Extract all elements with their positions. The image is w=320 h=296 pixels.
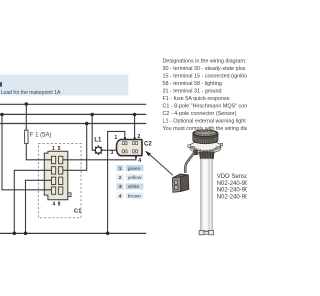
svg-text:L1 - Optional external warning: L1 - Optional external warning light [163,119,247,125]
C2 terminal 4 [133,150,138,153]
connector C1 right tab [68,193,71,197]
svg-text:1: 1 [52,146,55,152]
C1 pin 1 [52,156,56,163]
svg-text:2: 2 [137,134,140,140]
junction node pin3 wire on ground bus [24,232,28,236]
sensor flange tabs [188,145,191,148]
svg-text:2: 2 [119,175,122,181]
wire C1 pin 6 to bus 58 [63,124,87,171]
arrow sensor plug to C2 [145,151,173,176]
svg-text:white: white [128,184,140,190]
svg-text:1: 1 [119,166,122,172]
sensor knurled collar [199,152,214,159]
svg-text:N02-240-902: N02-240-902 [217,181,247,187]
wire C2 pin 1 to ground bus [108,131,125,233]
sensor flange plate [190,141,221,153]
wire C1 pin 5 to C2 pin 4 [63,156,136,160]
svg-text:1: 1 [114,135,117,141]
C2 terminal 3 [122,150,127,153]
C1 pin 4 [52,187,56,194]
legend table wire colors [116,165,143,199]
junction node fuse on bus 30 [25,102,29,106]
sensor foot [199,231,213,235]
bus 30 top supply line [0,103,146,105]
svg-text:3: 3 [110,150,113,156]
designations text block [163,58,254,132]
svg-text:4: 4 [138,158,141,164]
C1 pin 3 [52,177,56,184]
wire bus 15 to lamp L1 [92,115,93,151]
sensor plug connector [172,174,189,192]
svg-text:green: green [128,166,141,172]
ground bus 31 [0,232,146,234]
svg-text:15 - terminal 15 - connected (: 15 - terminal 15 - connected (ignition [163,74,248,80]
junction node C1 pin4 on bus 15 [0,113,4,117]
junction node C2 pin2 on bus 15 [133,113,137,117]
svg-text:C1: C1 [74,208,82,214]
svg-text:4: 4 [119,193,122,199]
fuse F1 [25,130,28,143]
svg-text:3: 3 [119,184,122,190]
C2 terminal 1 [122,142,127,145]
svg-text:58 - terminal 58 - lighting: 58 - terminal 58 - lighting [163,81,222,87]
svg-text:brown: brown [128,193,142,199]
sensor tube [201,159,212,231]
connector C1 body [44,151,68,200]
svg-text:C2 - 4-pole connector (Sensor): C2 - 4-pole connector (Sensor) [163,111,237,117]
C2 terminal slots [124,143,136,153]
info banner [0,75,128,96]
bus 15 second supply line [0,113,146,115]
junction node lamp on bus 15 [90,113,94,117]
wire C2 pin 2 to bus 15 [134,115,136,140]
wire C1 pin 4 to bus 15 [2,115,52,190]
svg-text:5: 5 [58,146,61,152]
wire fuse feed from bus 30 [25,104,27,130]
junction node pin2 wire on ground bus [13,232,17,236]
svg-text:4: 4 [52,202,55,208]
svg-text:yellow: yellow [128,175,142,181]
C2 pin 2 stub [134,137,136,140]
C1 pin 5 [59,156,63,163]
sensor part numbers [217,174,253,200]
wire C1 pin 2 to ground bus [14,170,51,233]
svg-text:C2: C2 [144,141,152,147]
C2 pin 4 stub [135,155,137,158]
svg-text:C1 - 8-pole "Hirschmann MQS" c: C1 - 8-pole "Hirschmann MQS" conn [163,104,248,110]
junction node C2 pin1 wire on ground bus [106,232,110,236]
C1 pin 7 [59,177,63,184]
svg-text:8: 8 [58,202,61,208]
C1 pin 2 [52,167,56,174]
connector C2 body [116,140,142,156]
svg-text:31 - terminal 31 - ground: 31 - terminal 31 - ground [163,89,222,95]
sensor flange rim segments [190,146,221,151]
svg-text:L1: L1 [94,138,102,144]
wire lamp to C2 pin 3 [103,149,118,151]
C1 pin 8 [59,187,63,194]
C1 pin 6 [59,167,63,174]
svg-text:Load for the makepoint 1A: Load for the makepoint 1A [1,90,61,96]
bus 58 third supply line [0,123,146,125]
wire C1 pin 3 to ground bus [26,180,52,233]
svg-text:30 - terminal 30 - steady-stat: 30 - terminal 30 - steady-state plus 12 [163,66,248,72]
wire fuse to C1 pin 1 [26,144,51,160]
svg-text:N02-240-906: N02-240-906 [217,194,247,200]
connector C1 dashed box [38,143,81,217]
sensor cable gland [193,150,198,156]
svg-text:N02-240-904: N02-240-904 [217,188,247,194]
sensor cable [185,152,195,173]
svg-text:F1 - fuse 5A quick-response: F1 - fuse 5A quick-response [163,96,230,102]
C2 terminal 2 [133,142,138,145]
lamp L1 [94,138,103,155]
svg-text:F 1 (5A): F 1 (5A) [30,132,52,138]
junction node C1 pin6 on bus 58 [85,122,89,126]
svg-text:VDO Sensor: VDO Sensor [217,174,247,180]
svg-text:Designations in the wiring dia: Designations in the wiring diagram: [163,58,247,64]
sensor top drum [193,130,218,144]
C2 pin 1 stub [124,137,126,140]
